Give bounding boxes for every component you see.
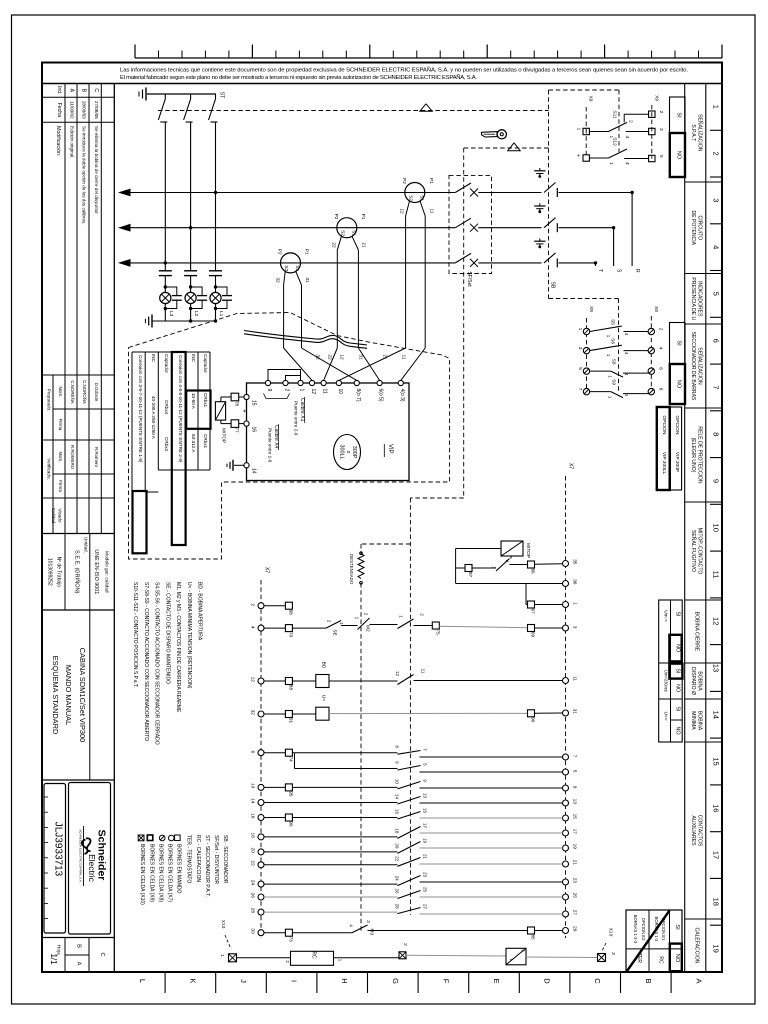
svg-text:17: 17 xyxy=(423,823,428,829)
svg-text:74: 74 xyxy=(288,757,293,763)
svg-text:17: 17 xyxy=(572,829,578,835)
svg-text:VIP 300LL: VIP 300LL xyxy=(661,452,667,475)
VIP left terminals 15 16 14 xyxy=(244,394,249,399)
svg-text:18: 18 xyxy=(395,828,400,834)
svg-text:DISPARO Ø: DISPARO Ø xyxy=(690,667,696,695)
MITOP contact box row 35/36 xyxy=(501,541,523,556)
svg-text:21: 21 xyxy=(423,854,428,860)
svg-text:MANDO MANUAL: MANDO MANUAL xyxy=(64,665,73,725)
svg-text:Visado: Visado xyxy=(58,509,63,523)
svg-text:X9: X9 xyxy=(654,95,660,101)
svg-text:9: 9 xyxy=(572,786,578,789)
svg-text:2: 2 xyxy=(402,943,408,946)
CT secondary fan wires into relay xyxy=(284,348,312,380)
current transformer CT3 xyxy=(281,253,301,273)
svg-text:Verificado.: Verificado. xyxy=(47,458,52,479)
svg-text:68: 68 xyxy=(288,610,293,616)
svg-text:Puente entre 1-9: Puente entre 1-9 xyxy=(268,428,273,463)
busbar line 2 with arrow xyxy=(120,227,456,229)
svg-text:2: 2 xyxy=(658,111,664,114)
svg-text:S12: S12 xyxy=(612,137,618,146)
svg-text:SECCIONADOR DE BARRAS: SECCIONADOR DE BARRAS xyxy=(690,332,696,401)
option table calefaccion xyxy=(626,910,682,972)
earthing switch ST poles xyxy=(164,94,166,99)
svg-text:27/08/08: 27/08/08 xyxy=(94,101,99,119)
svg-text:D.Gdoste: D.Gdoste xyxy=(94,383,99,402)
open triangle on breaker box xyxy=(508,143,520,151)
capacitor dividers on lamp drops xyxy=(164,122,166,271)
terminal 14 earth xyxy=(234,464,244,466)
svg-text:32: 32 xyxy=(315,354,321,360)
svg-text:77: 77 xyxy=(235,427,240,433)
svg-text:31: 31 xyxy=(304,277,310,283)
svg-text:28: 28 xyxy=(250,908,256,914)
svg-text:DESTENSADO: DESTENSADO xyxy=(349,554,354,585)
svg-text:R: R xyxy=(634,269,640,273)
svg-text:D: D xyxy=(543,978,552,984)
circuit breaker SF/Set outer dashed box xyxy=(464,147,549,149)
svg-text:Conexion con 3-5-7-10-11-12 (P: Conexion con 3-5-7-10-11-12 (PUENTE ENTR… xyxy=(138,355,143,463)
svg-text:P2: P2 xyxy=(277,249,283,255)
svg-text:S10-S11-S12 - CONTACTO POSIC: S10-S11-S12 - CONTACTO POSICION S.P.a.T. xyxy=(132,582,138,688)
svg-text:4: 4 xyxy=(658,347,664,350)
right category label column xyxy=(684,84,686,973)
svg-text:CALEFACCION: CALEFACCION xyxy=(693,928,699,964)
row X7:4 SE M2 chain xyxy=(264,627,285,629)
svg-text:1: 1 xyxy=(608,162,614,165)
breaker poles xyxy=(455,183,471,193)
svg-text:18: 18 xyxy=(712,898,721,906)
svg-text:S6: S6 xyxy=(610,338,616,344)
right margin number strip xyxy=(705,84,707,973)
svg-text:AUXILIARES: AUXILIARES xyxy=(690,815,696,846)
svg-text:96: 96 xyxy=(288,821,293,827)
svg-text:C: C xyxy=(99,952,105,956)
svg-text:10: 10 xyxy=(712,524,721,532)
svg-text:SI: SI xyxy=(676,112,682,118)
svg-text:10: 10 xyxy=(395,779,400,785)
svg-text:4: 4 xyxy=(712,245,721,249)
bold box puente entre 1-9 xyxy=(133,491,147,553)
svg-text:Um=230vcc: Um=230vcc xyxy=(664,670,669,692)
svg-text:86: 86 xyxy=(531,568,536,574)
svg-text:A: A xyxy=(694,978,703,983)
svg-text:C: C xyxy=(593,978,602,984)
svg-text:BORNES EN CELDA (X8): BORNES EN CELDA (X8) xyxy=(157,844,163,902)
svg-text:13: 13 xyxy=(712,664,721,672)
option boxes bobina cierre / disparo / minima with Um cells xyxy=(659,600,683,742)
option box SI/NO senalizacion SPAT xyxy=(670,97,686,133)
svg-text:87: 87 xyxy=(468,572,473,578)
svg-text:P1: P1 xyxy=(360,214,366,220)
svg-text:Edición original.: Edición original. xyxy=(70,126,75,158)
open triangle on ST linkage xyxy=(420,104,432,111)
svg-text:4(o 3): 4(o 3) xyxy=(399,389,405,402)
svg-text:Modelo gar. calidad: Modelo gar. calidad xyxy=(104,551,110,593)
terminal 87 xyxy=(465,565,472,572)
svg-text:BOBINA CIERRE: BOBINA CIERRE xyxy=(693,612,699,652)
svg-text:22: 22 xyxy=(395,856,400,862)
svg-text:S.E.E. (GRIÑON): S.E.E. (GRIÑON) xyxy=(74,550,81,594)
svg-text:S.P.A.T: S.P.A.T xyxy=(690,124,696,141)
svg-text:NO: NO xyxy=(674,644,680,652)
svg-text:P2: P2 xyxy=(401,178,407,184)
svg-text:22: 22 xyxy=(327,354,333,360)
svg-text:Nom.: Nom. xyxy=(58,452,63,463)
row 16 with terminal 96 xyxy=(264,817,285,819)
svg-text:SI: SI xyxy=(674,668,680,673)
svg-text:27: 27 xyxy=(423,904,428,910)
svg-text:VIP 300P: VIP 300P xyxy=(674,452,680,472)
svg-text:12: 12 xyxy=(399,208,405,214)
thermostat box xyxy=(506,948,526,965)
svg-text:90: 90 xyxy=(531,717,536,723)
svg-text:I: I xyxy=(290,980,299,982)
svg-text:29: 29 xyxy=(572,926,578,932)
breaker aux contact row 3 xyxy=(398,619,414,629)
svg-text:SE: SE xyxy=(332,629,338,635)
svg-text:Nº de Trabajo: Nº de Trabajo xyxy=(56,557,62,588)
svg-text:ESQUEMA STANDARD: ESQUEMA STANDARD xyxy=(51,656,60,735)
svg-text:11: 11 xyxy=(421,669,426,674)
svg-text:8: 8 xyxy=(712,432,721,436)
svg-text:BOBINA: BOBINA xyxy=(696,671,702,691)
row X7:32 undervoltage coil xyxy=(264,713,285,715)
svg-text:13: 13 xyxy=(423,793,428,799)
svg-text:40-200 A 250-1250 A: 40-200 A 250-1250 A xyxy=(151,396,156,440)
svg-text:12: 12 xyxy=(712,617,721,625)
svg-text:20: 20 xyxy=(250,848,256,854)
circuit breaker inner dashed box xyxy=(449,175,492,273)
svg-text:JLJ3933713: JLJ3933713 xyxy=(53,822,64,877)
svg-text:S8: S8 xyxy=(611,359,617,365)
svg-text:Calibre X4: Calibre X4 xyxy=(273,425,279,449)
svg-text:K: K xyxy=(188,978,197,983)
svg-text:BOBINA: BOBINA xyxy=(696,711,702,731)
svg-text:32: 32 xyxy=(250,710,256,716)
svg-text:31: 31 xyxy=(572,709,578,715)
svg-text:MITOP: MITOP xyxy=(525,543,531,558)
svg-text:1: 1 xyxy=(577,328,583,331)
svg-text:T: T xyxy=(597,269,603,272)
svg-text:15: 15 xyxy=(712,757,721,765)
svg-text:7: 7 xyxy=(712,385,721,389)
svg-text:CABINA SDM1C/Set VIP300: CABINA SDM1C/Set VIP300 xyxy=(78,648,87,742)
svg-text:BD - BOBINA APERTURA: BD - BOBINA APERTURA xyxy=(197,582,203,641)
svg-text:MITOP: MITOP xyxy=(221,428,227,443)
svg-text:1: 1 xyxy=(712,105,721,109)
svg-text:M3: M3 xyxy=(369,929,375,936)
option boxes rele de proteccion VIP300P / VIP300LL xyxy=(670,407,681,490)
svg-text:INDICADORES: INDICADORES xyxy=(696,281,702,317)
svg-text:NO: NO xyxy=(676,380,682,389)
svg-text:RELE DE PROTECCION: RELE DE PROTECCION xyxy=(696,426,702,483)
svg-text:SI: SI xyxy=(674,611,680,616)
cabina dashed boundary (tent) xyxy=(129,313,450,560)
svg-text:11/03/02: 11/03/02 xyxy=(70,101,75,119)
svg-text:RC: RC xyxy=(311,951,317,959)
svg-text:14: 14 xyxy=(712,711,721,719)
svg-text:3: 3 xyxy=(610,952,616,955)
S11 contact with X9 terminals xyxy=(583,128,589,134)
svg-text:30: 30 xyxy=(250,928,256,934)
svg-text:Firma: Firma xyxy=(58,480,63,492)
svg-text:P2: P2 xyxy=(333,214,339,220)
svg-text:10: 10 xyxy=(250,783,256,789)
svg-text:95: 95 xyxy=(288,791,293,797)
terminal 69 to X7:3 xyxy=(528,625,535,632)
svg-text:Firma: Firma xyxy=(58,419,63,431)
svg-text:L: L xyxy=(138,979,147,983)
top ruler xyxy=(135,57,722,59)
svg-text:1: 1 xyxy=(572,602,578,605)
svg-text:OPCION: OPCION xyxy=(674,416,680,435)
svg-text:15: 15 xyxy=(423,808,428,814)
svg-text:S1: S1 xyxy=(294,265,300,271)
SE contact xyxy=(326,621,341,629)
svg-text:5: 5 xyxy=(572,770,578,773)
svg-text:21: 21 xyxy=(361,242,367,248)
svg-text:2: 2 xyxy=(250,604,256,607)
svg-text:Unidad.: Unidad. xyxy=(84,537,89,553)
svg-text:22: 22 xyxy=(331,242,337,248)
option box SI/NO seccionador de barras xyxy=(670,323,686,365)
svg-text:3: 3 xyxy=(572,626,578,629)
svg-text:9: 9 xyxy=(266,389,272,392)
svg-text:69: 69 xyxy=(531,632,536,638)
svg-text:19: 19 xyxy=(712,944,721,952)
M2 contact xyxy=(358,618,370,630)
svg-text:Calidad: Calidad xyxy=(51,508,56,524)
svg-text:4: 4 xyxy=(624,135,630,138)
svg-text:Ind.: Ind. xyxy=(56,86,62,95)
svg-text:73: 73 xyxy=(288,937,293,943)
svg-text:SE - CONTACTO DE DISPARO MAN: SE - CONTACTO DE DISPARO MANTENIDO xyxy=(164,582,170,684)
svg-text:S2: S2 xyxy=(340,230,346,236)
svg-text:B: B xyxy=(76,944,82,948)
key symbol xyxy=(482,132,498,137)
svg-text:Preparado.: Preparado. xyxy=(47,389,52,412)
svg-text:5: 5 xyxy=(658,155,664,158)
svg-text:S5: S5 xyxy=(610,319,616,325)
svg-text:17: 17 xyxy=(712,851,721,859)
svg-text:7: 7 xyxy=(572,755,578,758)
svg-text:Um =: Um = xyxy=(663,610,669,622)
svg-text:SI: SI xyxy=(676,340,682,346)
bold box CRbx1/10-50A xyxy=(186,391,210,429)
svg-text:27: 27 xyxy=(572,910,578,916)
svg-text:18: 18 xyxy=(250,833,256,839)
svg-text:Captador: Captador xyxy=(164,354,169,373)
svg-text:VIP: VIP xyxy=(387,444,393,454)
svg-text:35: 35 xyxy=(572,559,578,565)
svg-text:RC: RC xyxy=(658,956,664,964)
svg-text:85: 85 xyxy=(531,934,536,940)
svg-text:INC: INC xyxy=(191,354,196,363)
schneider logo box xyxy=(69,783,111,935)
svg-text:SI: SI xyxy=(674,706,680,711)
R S T droppers xyxy=(631,193,633,267)
svg-text:CIRCUITO: CIRCUITO xyxy=(696,216,702,241)
svg-text:U<: U< xyxy=(320,695,326,701)
svg-text:3: 3 xyxy=(577,347,583,350)
svg-text:X8: X8 xyxy=(588,306,594,312)
SPAT enclosure dashed xyxy=(549,89,620,91)
svg-text:1013099252: 1013099252 xyxy=(47,558,53,586)
svg-text:10-50 A: 10-50 A xyxy=(191,393,196,410)
svg-text:SF/Set - DISYUNTOR: SF/Set - DISYUNTOR xyxy=(213,835,219,884)
svg-text:Puente entre 2-9: Puente entre 2-9 xyxy=(294,401,299,436)
svg-text:OPCION E2: OPCION E2 xyxy=(641,918,646,941)
svg-text:SCHNEIDER ELECTRIC ESPAÑA, S.A: SCHNEIDER ELECTRIC ESPAÑA, S.A. xyxy=(79,829,84,883)
disclaimer band xyxy=(42,83,722,85)
svg-text:P1: P1 xyxy=(428,178,434,184)
VIP relay box xyxy=(247,383,410,481)
svg-text:PRESENCIA DE U: PRESENCIA DE U xyxy=(690,277,696,320)
svg-text:MINIMA: MINIMA xyxy=(690,711,696,730)
svg-text:X7: X7 xyxy=(264,567,270,573)
svg-text:S11: S11 xyxy=(612,110,618,119)
svg-text:1: 1 xyxy=(219,954,225,957)
svg-text:23: 23 xyxy=(423,872,428,878)
job number box JLJ3933713 xyxy=(44,784,66,934)
svg-text:24: 24 xyxy=(395,876,400,882)
svg-text:B: B xyxy=(644,978,653,983)
svg-text:X10: X10 xyxy=(608,928,614,937)
svg-text:6: 6 xyxy=(250,751,256,754)
RC heater resistor xyxy=(291,951,334,965)
svg-text:NO: NO xyxy=(676,151,682,160)
svg-text:Las informaciones tecnicas que: Las informaciones tecnicas que contiene … xyxy=(120,67,688,74)
svg-text:S9: S9 xyxy=(611,379,617,385)
svg-text:Fecha: Fecha xyxy=(56,103,62,118)
svg-text:12: 12 xyxy=(250,677,256,683)
svg-text:DE POTENCIA: DE POTENCIA xyxy=(690,211,696,246)
svg-text:13: 13 xyxy=(572,799,578,805)
svg-text:7: 7 xyxy=(577,388,583,391)
svg-text:S1: S1 xyxy=(419,195,425,201)
svg-text:12: 12 xyxy=(339,354,345,360)
svg-text:11: 11 xyxy=(712,571,721,579)
svg-text:SEÑALIZACION: SEÑALIZACION xyxy=(696,347,703,385)
svg-text:Se introduce la doble opción d: Se introduce la doble opción de los dos … xyxy=(82,126,87,225)
svg-text:67: 67 xyxy=(531,608,536,614)
svg-text:2: 2 xyxy=(658,328,664,331)
svg-text:CRbx4: CRbx4 xyxy=(164,437,169,451)
svg-text:1: 1 xyxy=(576,128,582,131)
svg-text:+: + xyxy=(574,154,580,157)
svg-text:70: 70 xyxy=(288,632,293,638)
svg-text:4: 4 xyxy=(250,626,256,629)
svg-text:14: 14 xyxy=(395,794,400,800)
bottom margin letter strip xyxy=(164,972,166,993)
left title block table xyxy=(113,84,115,973)
svg-text:6(o 5): 6(o 5) xyxy=(378,389,384,402)
svg-text:TER - TERMOSTATO: TER - TERMOSTATO xyxy=(186,835,192,883)
svg-text:22: 22 xyxy=(250,860,256,866)
busbar line 1 with arrow xyxy=(120,192,456,194)
svg-text:6: 6 xyxy=(712,339,721,343)
svg-text:C.NOROÑA: C.NOROÑA xyxy=(82,380,87,404)
svg-text:6: 6 xyxy=(658,367,664,370)
svg-text:NO: NO xyxy=(674,684,680,692)
svg-text:A: A xyxy=(69,88,75,92)
svg-text:SB: SB xyxy=(550,282,556,289)
svg-text:OPCION: OPCION xyxy=(661,416,667,435)
contact M1 under MITOP box xyxy=(510,556,512,559)
svg-text:32: 32 xyxy=(274,277,280,283)
300P/300LL ellipse xyxy=(334,435,361,470)
svg-text:R.ROMERO: R.ROMERO xyxy=(70,445,75,470)
svg-text:16: 16 xyxy=(712,804,721,812)
svg-text:300LL: 300LL xyxy=(339,445,345,460)
svg-text:El material fabricado segun es: El material fabricado segun este plano n… xyxy=(120,74,477,81)
svg-text:Se elimina la bobina de cierre: Se elimina la bobina de cierre del disyu… xyxy=(94,126,99,214)
terminal 75 xyxy=(432,622,439,629)
svg-text:X9: X9 xyxy=(588,96,594,102)
svg-text:12: 12 xyxy=(310,389,316,395)
VIP top terminals xyxy=(265,380,270,385)
busbar line 3 with arrow xyxy=(120,262,456,264)
svg-text:BORNES EN MANDO: BORNES EN MANDO xyxy=(176,844,182,894)
svg-text:L2: L2 xyxy=(193,311,199,317)
svg-text:1: 1 xyxy=(299,389,305,392)
svg-text:19: 19 xyxy=(423,838,428,844)
svg-text:L3: L3 xyxy=(168,311,174,317)
svg-text:36: 36 xyxy=(572,579,578,585)
aux contacts block xyxy=(398,751,421,755)
svg-text:63-312 A: 63-312 A xyxy=(191,434,196,453)
phase tails to R S T xyxy=(559,192,633,194)
captador/calibre selection table xyxy=(131,352,133,553)
row X7:12 BD opening coil xyxy=(264,680,285,682)
svg-text:G: G xyxy=(391,978,400,984)
svg-text:S2: S2 xyxy=(283,265,289,271)
svg-text:Nom.: Nom. xyxy=(58,387,63,398)
svg-text:NO: NO xyxy=(674,954,680,963)
lamps L3 L2 L1 with parallel capacitor branch xyxy=(164,285,167,288)
svg-text:24: 24 xyxy=(250,880,256,886)
S12 contact xyxy=(583,155,589,161)
svg-text:Conexion con 4-6-8-10-11-12 (P: Conexion con 4-6-8-10-11-12 (PUENTE ENTR… xyxy=(178,355,183,463)
svg-text:U<=: U<= xyxy=(663,711,669,720)
svg-text:SB - SECCIONADOR: SB - SECCIONADOR xyxy=(222,835,228,884)
svg-text:C.NOREÑA: C.NOREÑA xyxy=(70,380,75,403)
svg-text:RC - CALEFACCION: RC - CALEFACCION xyxy=(195,835,201,882)
ST linkage dashed line xyxy=(158,110,549,112)
borne 2 crossed terminal xyxy=(399,952,406,959)
svg-text:91: 91 xyxy=(288,718,293,724)
svg-text:8(o 7): 8(o 7) xyxy=(355,389,361,402)
svg-text:L1: L1 xyxy=(218,311,224,317)
svg-text:BORNAS 1-2-3: BORNAS 1-2-3 xyxy=(633,915,638,944)
heating wire to RC xyxy=(237,957,291,959)
svg-text:2: 2 xyxy=(627,120,633,123)
svg-text:P1: P1 xyxy=(304,249,310,255)
svg-text:20: 20 xyxy=(395,843,400,849)
svg-text:78: 78 xyxy=(235,401,240,407)
svg-text:BORNES EN CELDA (X10): BORNES EN CELDA (X10) xyxy=(139,844,145,905)
svg-text:SI: SI xyxy=(674,924,680,930)
svg-text:88: 88 xyxy=(288,685,293,691)
svg-text:U< - BOBINA MINIMA TENSION: U< - BOBINA MINIMA TENSION (RETENCION) xyxy=(186,582,192,689)
svg-text:CRbx1: CRbx1 xyxy=(203,434,208,448)
cable squiggle crossing CT wires xyxy=(244,331,367,346)
svg-text:8: 8 xyxy=(658,388,664,391)
svg-text:11: 11 xyxy=(572,676,578,681)
svg-text:21: 21 xyxy=(382,354,388,360)
svg-text:Calibre X1: Calibre X1 xyxy=(299,398,305,422)
